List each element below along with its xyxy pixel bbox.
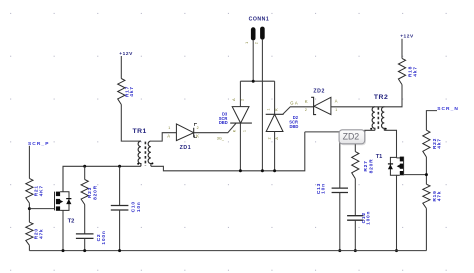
wire TR2 left-bottom to mid-rail riser <box>305 130 375 132</box>
resistor R23 <box>84 166 86 179</box>
svg-text:A: A <box>167 134 170 139</box>
svg-text:SCR_N: SCR_N <box>437 106 459 112</box>
svg-text:2: 2 <box>241 99 245 101</box>
svg-text:4k7: 4k7 <box>129 86 135 96</box>
svg-text:4k7: 4k7 <box>437 138 443 148</box>
wire to T2 gate <box>29 208 54 210</box>
T1 body diode <box>390 157 396 175</box>
wire SCR_P to R21 <box>28 146 30 179</box>
svg-text:ZD2: ZD2 <box>343 131 360 141</box>
svg-text:+12V: +12V <box>400 34 414 40</box>
svg-text:K: K <box>273 108 278 111</box>
T1 source down to bottom rail <box>397 175 400 250</box>
resistor R22 <box>423 130 430 157</box>
wire TR1 top-right to ZD1 <box>151 133 177 141</box>
diode ZD1 <box>176 124 193 141</box>
svg-text:A: A <box>295 100 298 105</box>
svg-text:1: 1 <box>243 130 247 132</box>
svg-text:4K7: 4K7 <box>39 185 45 196</box>
wire SCR_N to R22 <box>426 111 437 131</box>
svg-text:CONN1: CONN1 <box>249 17 270 23</box>
wire D3 anode to D2 cathode <box>240 80 274 82</box>
svg-text:820R: 820R <box>92 185 98 200</box>
svg-text:TR1: TR1 <box>133 128 147 135</box>
junction R23 top <box>83 165 86 168</box>
wire D3 cathode down to mid rail <box>239 123 241 171</box>
wire D2 cathode up <box>274 81 276 114</box>
svg-text:2: 2 <box>268 137 272 139</box>
svg-text:820R: 820R <box>369 159 375 174</box>
thyristor D2 SCR <box>266 113 284 115</box>
svg-text:100n: 100n <box>101 230 107 244</box>
svg-text:ZD2: ZD2 <box>313 89 325 95</box>
wire R27 to C12 <box>354 179 356 216</box>
svg-text:DBD: DBD <box>290 124 299 129</box>
svg-text:DBD: DBD <box>219 120 228 125</box>
resistor R18 <box>398 58 405 84</box>
svg-text:A: A <box>335 99 338 104</box>
svg-text:2: 2 <box>254 42 258 44</box>
svg-text:K: K <box>305 99 308 104</box>
svg-text:3G_: 3G_ <box>217 137 225 141</box>
T2 drain up <box>62 166 64 191</box>
svg-text:4k7: 4k7 <box>413 66 419 76</box>
svg-text:C10: C10 <box>131 201 137 212</box>
svg-text:1: 1 <box>267 108 271 110</box>
wire TR1 bottom-left rail to T2 drain <box>63 166 141 191</box>
svg-text:K: K <box>232 129 237 132</box>
svg-text:TR2: TR2 <box>374 94 388 101</box>
T2 source down <box>62 210 64 250</box>
svg-text:K: K <box>196 134 199 139</box>
svg-text:+12V: +12V <box>119 51 133 57</box>
svg-text:ZD1: ZD1 <box>180 145 192 151</box>
resistor R27 <box>354 132 356 152</box>
resistor R17 <box>118 79 125 105</box>
capacitor C10 <box>119 166 121 205</box>
svg-text:G: G <box>290 100 293 105</box>
svg-text:SCR_P: SCR_P <box>28 141 50 147</box>
wire ZD2 anode to R18/TR2 node <box>331 85 402 107</box>
svg-text:R27: R27 <box>363 160 369 171</box>
bottom common rail <box>29 250 426 252</box>
capacitor C13 <box>339 132 341 188</box>
svg-text:A: A <box>274 137 279 140</box>
wire TR1 bottom-right to mid rail <box>151 132 305 171</box>
T1 gate wire to R22/R19 node <box>404 174 427 176</box>
svg-text:A: A <box>231 98 236 101</box>
svg-text:1: 1 <box>168 126 170 130</box>
svg-text:47k: 47k <box>437 191 443 201</box>
resistor R21 <box>26 178 33 203</box>
wire D2 anode down to mid rail <box>274 132 276 171</box>
wire D3 anode up <box>239 81 241 106</box>
wire TR2 right-bottom to T1 drain <box>384 130 396 158</box>
wire CONN1 pin2 down to mid rail <box>261 40 263 171</box>
svg-text:100n: 100n <box>366 211 372 225</box>
svg-text:1: 1 <box>245 42 249 44</box>
wire ZD1 cathode to D3 gate <box>194 123 236 132</box>
diode ZD2 <box>311 97 316 114</box>
svg-text:2: 2 <box>197 126 199 130</box>
junction C10 top <box>118 165 121 168</box>
capacitor C12 <box>347 215 363 217</box>
svg-text:10n: 10n <box>321 183 327 194</box>
capacitor C2 <box>76 233 94 235</box>
resistor R19 <box>423 184 430 208</box>
T2 body diode <box>60 192 69 211</box>
wire +12V to R17 <box>120 56 122 79</box>
svg-text:10n: 10n <box>136 201 142 212</box>
svg-text:47k: 47k <box>39 229 45 239</box>
svg-text:2: 2 <box>305 108 307 112</box>
wire +12V to R18 <box>401 39 403 59</box>
resistor R20 <box>26 222 33 245</box>
svg-text:T2: T2 <box>68 218 75 224</box>
wire R17 to TR1 pin1 <box>121 105 141 142</box>
svg-text:T1: T1 <box>376 154 383 160</box>
wire D2 gate to ZD2 <box>283 107 314 115</box>
svg-text:R23: R23 <box>87 187 93 198</box>
svg-text:1: 1 <box>335 108 337 112</box>
svg-text:C2: C2 <box>96 234 102 242</box>
wire CONN1 pin1 down <box>252 40 254 81</box>
thyristor D3 SCR <box>232 107 249 124</box>
